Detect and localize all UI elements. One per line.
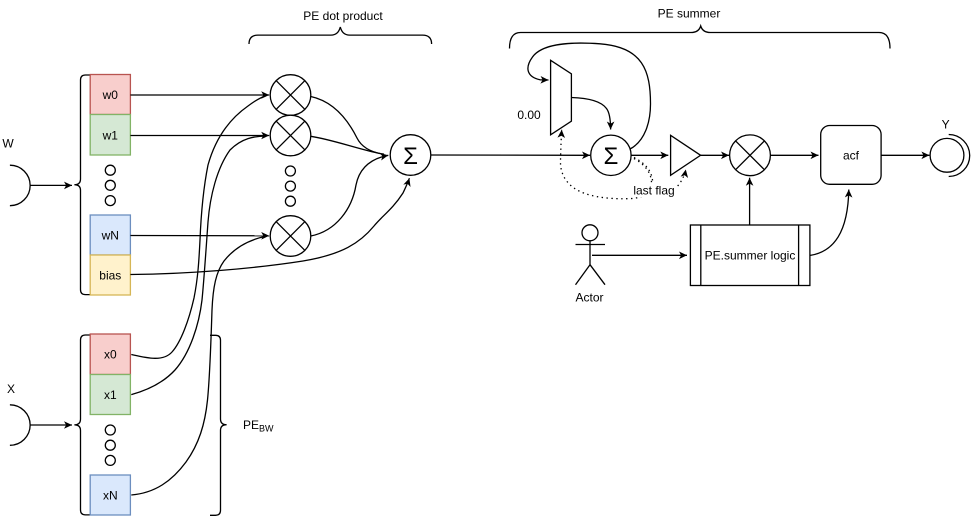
wire PE.summer logic to multiplier M4 — [749, 178, 751, 225]
dots W column — [105, 165, 115, 205]
wire M2 output to summer S1 — [311, 136, 381, 154]
svg-text:PE dot product: PE dot product — [303, 9, 383, 23]
svg-text:Σ: Σ — [403, 143, 418, 170]
wire PE.summer logic to acf — [810, 190, 849, 256]
summer S1 — [390, 135, 431, 176]
box acf U1 — [821, 126, 881, 185]
wire S2 to buffer T1 — [631, 154, 668, 156]
svg-text:xN: xN — [103, 489, 118, 503]
wire bias to summer S1 — [130, 178, 409, 274]
multiplier M1 — [270, 75, 311, 116]
wire x0 to multiplier M1 — [131, 96, 266, 359]
wire X arrow to brace — [30, 424, 72, 426]
svg-text:acf: acf — [843, 148, 860, 162]
wire W arrow to brace — [30, 184, 72, 186]
svg-text:last flag: last flag — [633, 183, 674, 197]
svg-text:Actor: Actor — [575, 291, 603, 305]
box wN — [90, 215, 130, 255]
wire T1 to multiplier M4 — [701, 154, 729, 156]
svg-text:Σ: Σ — [603, 143, 618, 170]
dots multiplier column — [285, 166, 295, 206]
wire wN to multiplier M3 — [130, 235, 269, 237]
svg-text:PE.summer logic: PE.summer logic — [705, 249, 796, 263]
wire x1 to multiplier M2 — [131, 136, 266, 395]
wire feedback S2 to mux MX1 — [528, 43, 651, 149]
wire mux MX1 to summer S2 — [571, 98, 610, 130]
box xN — [90, 475, 130, 515]
svg-text:w0: w0 — [102, 88, 119, 102]
wire M1 output to summer S1 — [311, 97, 384, 155]
dots X column — [105, 425, 115, 465]
svg-text:bias: bias — [99, 269, 121, 283]
input W arc — [10, 165, 30, 206]
box bias — [90, 255, 130, 295]
wire w1 to multiplier M2 — [130, 135, 269, 137]
brace PE summer — [510, 26, 891, 49]
box w0 — [90, 75, 130, 115]
wire S1 to summer S2 — [431, 154, 590, 156]
svg-text:W: W — [2, 137, 14, 151]
brace X group left — [74, 335, 90, 515]
wire w0 to multiplier M1 — [130, 94, 269, 96]
brace X group right — [210, 335, 227, 515]
wire M4 to acf — [770, 154, 818, 156]
mux MX1 — [551, 60, 572, 135]
dotted wire S2 to buffer T1 (last flag) — [634, 158, 686, 192]
wire xN to multiplier M3 — [131, 236, 266, 495]
label last flag — [632, 183, 677, 198]
actor A1 — [576, 225, 606, 285]
svg-text:0.00: 0.00 — [517, 108, 541, 122]
svg-text:X: X — [7, 382, 15, 396]
multiplier M4 — [730, 135, 771, 176]
input X arc — [10, 405, 30, 446]
svg-text:w1: w1 — [102, 129, 119, 143]
dotted wire S2 to mux MX1 (last flag) — [560, 130, 651, 199]
svg-text:x1: x1 — [104, 388, 117, 402]
brace W group — [74, 75, 90, 295]
svg-text:x0: x0 — [104, 348, 117, 362]
box PE.summer logic U2 — [690, 225, 810, 286]
svg-text:PE summer: PE summer — [658, 7, 721, 21]
wire actor to PE.summer logic — [592, 254, 687, 256]
summer S2 — [591, 135, 631, 175]
svg-text:wN: wN — [101, 229, 119, 243]
multiplier M2 — [270, 115, 311, 156]
multiplier M3 — [270, 216, 311, 257]
brace PE dot product — [249, 27, 432, 44]
buffer T1 — [671, 135, 701, 175]
box w1 — [90, 115, 130, 156]
output Y terminal — [930, 135, 970, 177]
wire M3 output to summer S1 — [311, 155, 389, 236]
svg-text:Y: Y — [942, 118, 950, 132]
box x0 — [90, 334, 130, 375]
wire acf to output Y — [881, 154, 929, 156]
box x1 — [90, 375, 130, 415]
